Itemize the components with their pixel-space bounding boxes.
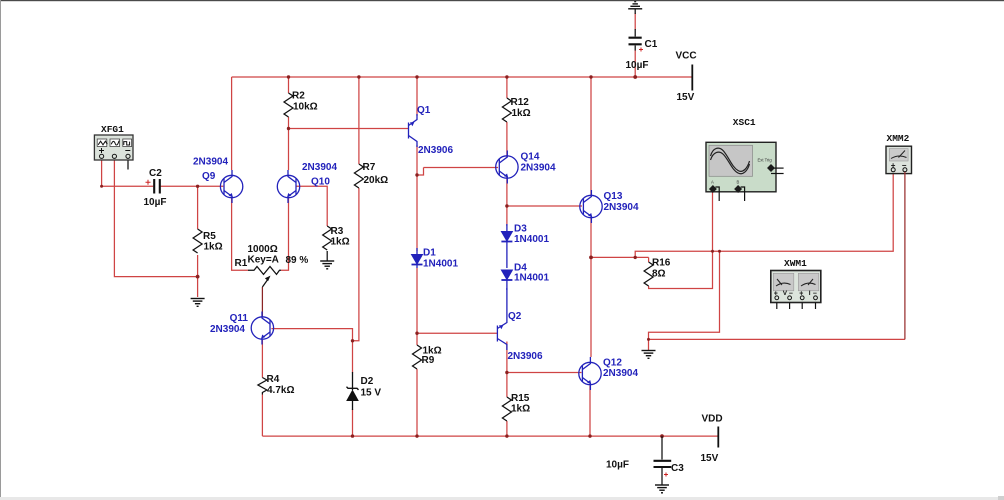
svg-text:15 V: 15 V xyxy=(361,388,382,399)
svg-text:XWM1: XWM1 xyxy=(784,258,807,269)
svg-text:1kΩ: 1kΩ xyxy=(512,108,531,119)
svg-text:Q12: Q12 xyxy=(603,358,622,369)
svg-text:8Ω: 8Ω xyxy=(652,269,666,280)
svg-text:1N4001: 1N4001 xyxy=(423,259,458,270)
svg-text:10µF: 10µF xyxy=(144,197,167,208)
svg-text:2N3904: 2N3904 xyxy=(603,368,638,379)
svg-text:89 %: 89 % xyxy=(286,255,309,266)
svg-text:VDD: VDD xyxy=(702,414,723,425)
svg-text:2N3904: 2N3904 xyxy=(302,162,337,173)
svg-text:C1: C1 xyxy=(645,39,658,50)
svg-text:R12: R12 xyxy=(511,97,530,108)
svg-text:R15: R15 xyxy=(511,393,530,404)
svg-text:Q9: Q9 xyxy=(202,171,216,182)
svg-text:R16: R16 xyxy=(652,258,671,269)
svg-text:2N3904: 2N3904 xyxy=(521,163,556,174)
svg-text:R5: R5 xyxy=(203,231,216,242)
svg-text:R4: R4 xyxy=(267,374,280,385)
svg-text:2N3904: 2N3904 xyxy=(604,202,639,213)
svg-text:Ext Trig: Ext Trig xyxy=(758,158,773,163)
svg-text:2N3904: 2N3904 xyxy=(210,324,245,335)
svg-text:1kΩ: 1kΩ xyxy=(511,404,530,415)
svg-text:2N3904: 2N3904 xyxy=(193,157,228,168)
svg-text:C2: C2 xyxy=(149,168,162,179)
svg-text:Q14: Q14 xyxy=(521,152,540,163)
svg-text:2N3906: 2N3906 xyxy=(508,351,543,362)
svg-text:R3: R3 xyxy=(331,226,344,237)
svg-text:1kΩ: 1kΩ xyxy=(204,242,223,253)
svg-text:1000Ω: 1000Ω xyxy=(248,244,278,255)
svg-text:15V: 15V xyxy=(677,92,695,103)
svg-text:20kΩ: 20kΩ xyxy=(364,175,389,186)
svg-text:XSC1: XSC1 xyxy=(733,117,756,128)
svg-text:1N4001: 1N4001 xyxy=(514,273,549,284)
svg-text:I: I xyxy=(809,290,811,297)
svg-text:15V: 15V xyxy=(701,453,719,464)
svg-text:2N3906: 2N3906 xyxy=(418,145,453,156)
svg-text:R1: R1 xyxy=(235,258,248,269)
svg-text:R2: R2 xyxy=(292,91,305,102)
svg-text:10µF: 10µF xyxy=(626,60,649,71)
svg-text:1N4001: 1N4001 xyxy=(514,234,549,245)
svg-text:VCC: VCC xyxy=(676,51,697,62)
svg-text:Q13: Q13 xyxy=(604,191,623,202)
svg-text:A: A xyxy=(711,180,714,185)
svg-text:Q11: Q11 xyxy=(230,313,249,324)
svg-text:D2: D2 xyxy=(361,376,374,387)
svg-text:1kΩ: 1kΩ xyxy=(331,237,350,248)
svg-text:XMM2: XMM2 xyxy=(887,133,910,144)
svg-text:R7: R7 xyxy=(363,162,376,173)
svg-text:Key=A: Key=A xyxy=(248,255,279,266)
svg-text:C3: C3 xyxy=(671,463,684,474)
svg-text:Q1: Q1 xyxy=(417,105,431,116)
svg-text:V: V xyxy=(783,290,788,297)
svg-text:B: B xyxy=(737,180,740,185)
svg-text:4.7kΩ: 4.7kΩ xyxy=(267,385,294,396)
svg-text:10kΩ: 10kΩ xyxy=(293,102,318,113)
svg-text:R9: R9 xyxy=(422,355,435,366)
svg-text:XFG1: XFG1 xyxy=(101,124,124,135)
svg-text:Q10: Q10 xyxy=(311,177,330,188)
svg-text:Q2: Q2 xyxy=(508,311,522,322)
svg-text:D1: D1 xyxy=(423,248,436,259)
svg-text:10µF: 10µF xyxy=(606,460,629,471)
